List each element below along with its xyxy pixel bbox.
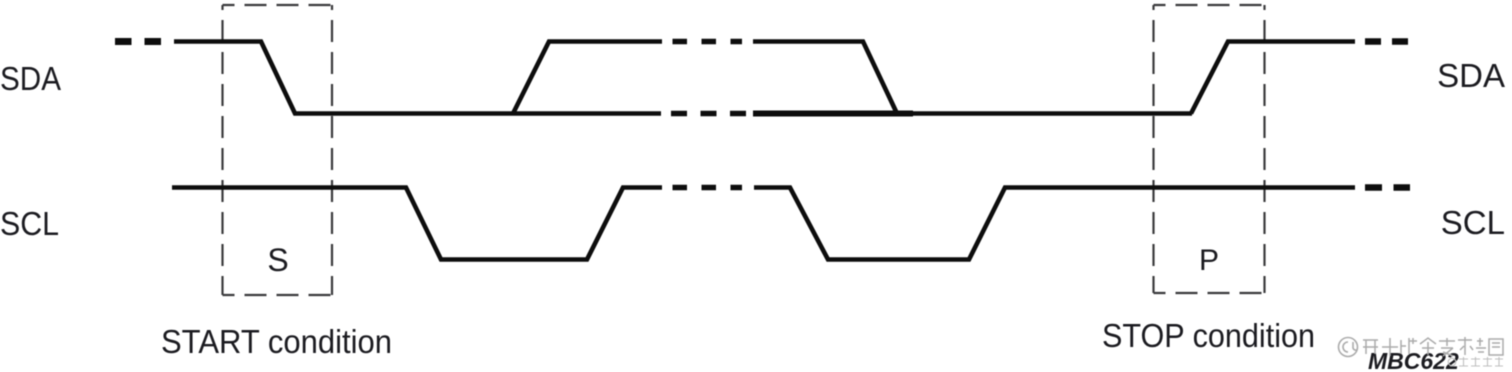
- caption START condition: [161, 324, 392, 361]
- svg-text:SDA: SDA: [0, 60, 61, 97]
- label SCL left: [0, 205, 59, 242]
- svg-text:START condition: START condition: [161, 324, 392, 361]
- STOP condition dashed box: [1154, 5, 1265, 293]
- svg-text:MBC622: MBC622: [1368, 348, 1459, 372]
- label SDA right: [1437, 57, 1505, 94]
- SDA wire: high, falling edge in START box, low run: [174, 42, 661, 114]
- svg-text:SCL: SCL: [1441, 204, 1505, 241]
- SDA low line break dashes (middle): [671, 111, 746, 117]
- watermark juejin community (drawn glyph boxes): [1339, 338, 1358, 357]
- svg-text:SDA: SDA: [1437, 57, 1505, 94]
- figure id MBC622: [1368, 348, 1459, 372]
- svg-text:SCL: SCL: [0, 205, 59, 242]
- SCL wire: second low pulse and high run to right: [754, 188, 1355, 260]
- node P (STOP symbol): [1199, 244, 1219, 277]
- SDA low bold segment after break: [753, 111, 913, 117]
- SDA leading dashes (left continuation): [115, 38, 161, 45]
- node S (START symbol): [267, 242, 288, 278]
- watermark bottom-right author: [1448, 357, 1503, 366]
- SDA trailing dashes (right continuation): [1365, 38, 1408, 45]
- svg-text:P: P: [1199, 244, 1219, 277]
- svg-text:S: S: [267, 242, 288, 278]
- SDA rising edge in STOP box and high run to right: [1191, 42, 1355, 114]
- START condition dashed box: [223, 5, 333, 295]
- label SDA left: [0, 60, 61, 97]
- SDA data pulse rising edge and high run (left part): [513, 42, 662, 114]
- SDA low run to STOP box: [911, 111, 1192, 116]
- SCL trailing dashes (right continuation): [1365, 184, 1410, 191]
- SDA high run (right part) and falling edge: [753, 42, 897, 114]
- SCL wire: high run, first low pulse: [172, 188, 662, 260]
- caption STOP condition: [1102, 318, 1315, 355]
- SDA high line break dashes (middle): [673, 39, 743, 45]
- SCL high line break dashes (middle): [673, 185, 743, 191]
- svg-text:STOP condition: STOP condition: [1102, 318, 1315, 355]
- label SCL right: [1441, 204, 1505, 241]
